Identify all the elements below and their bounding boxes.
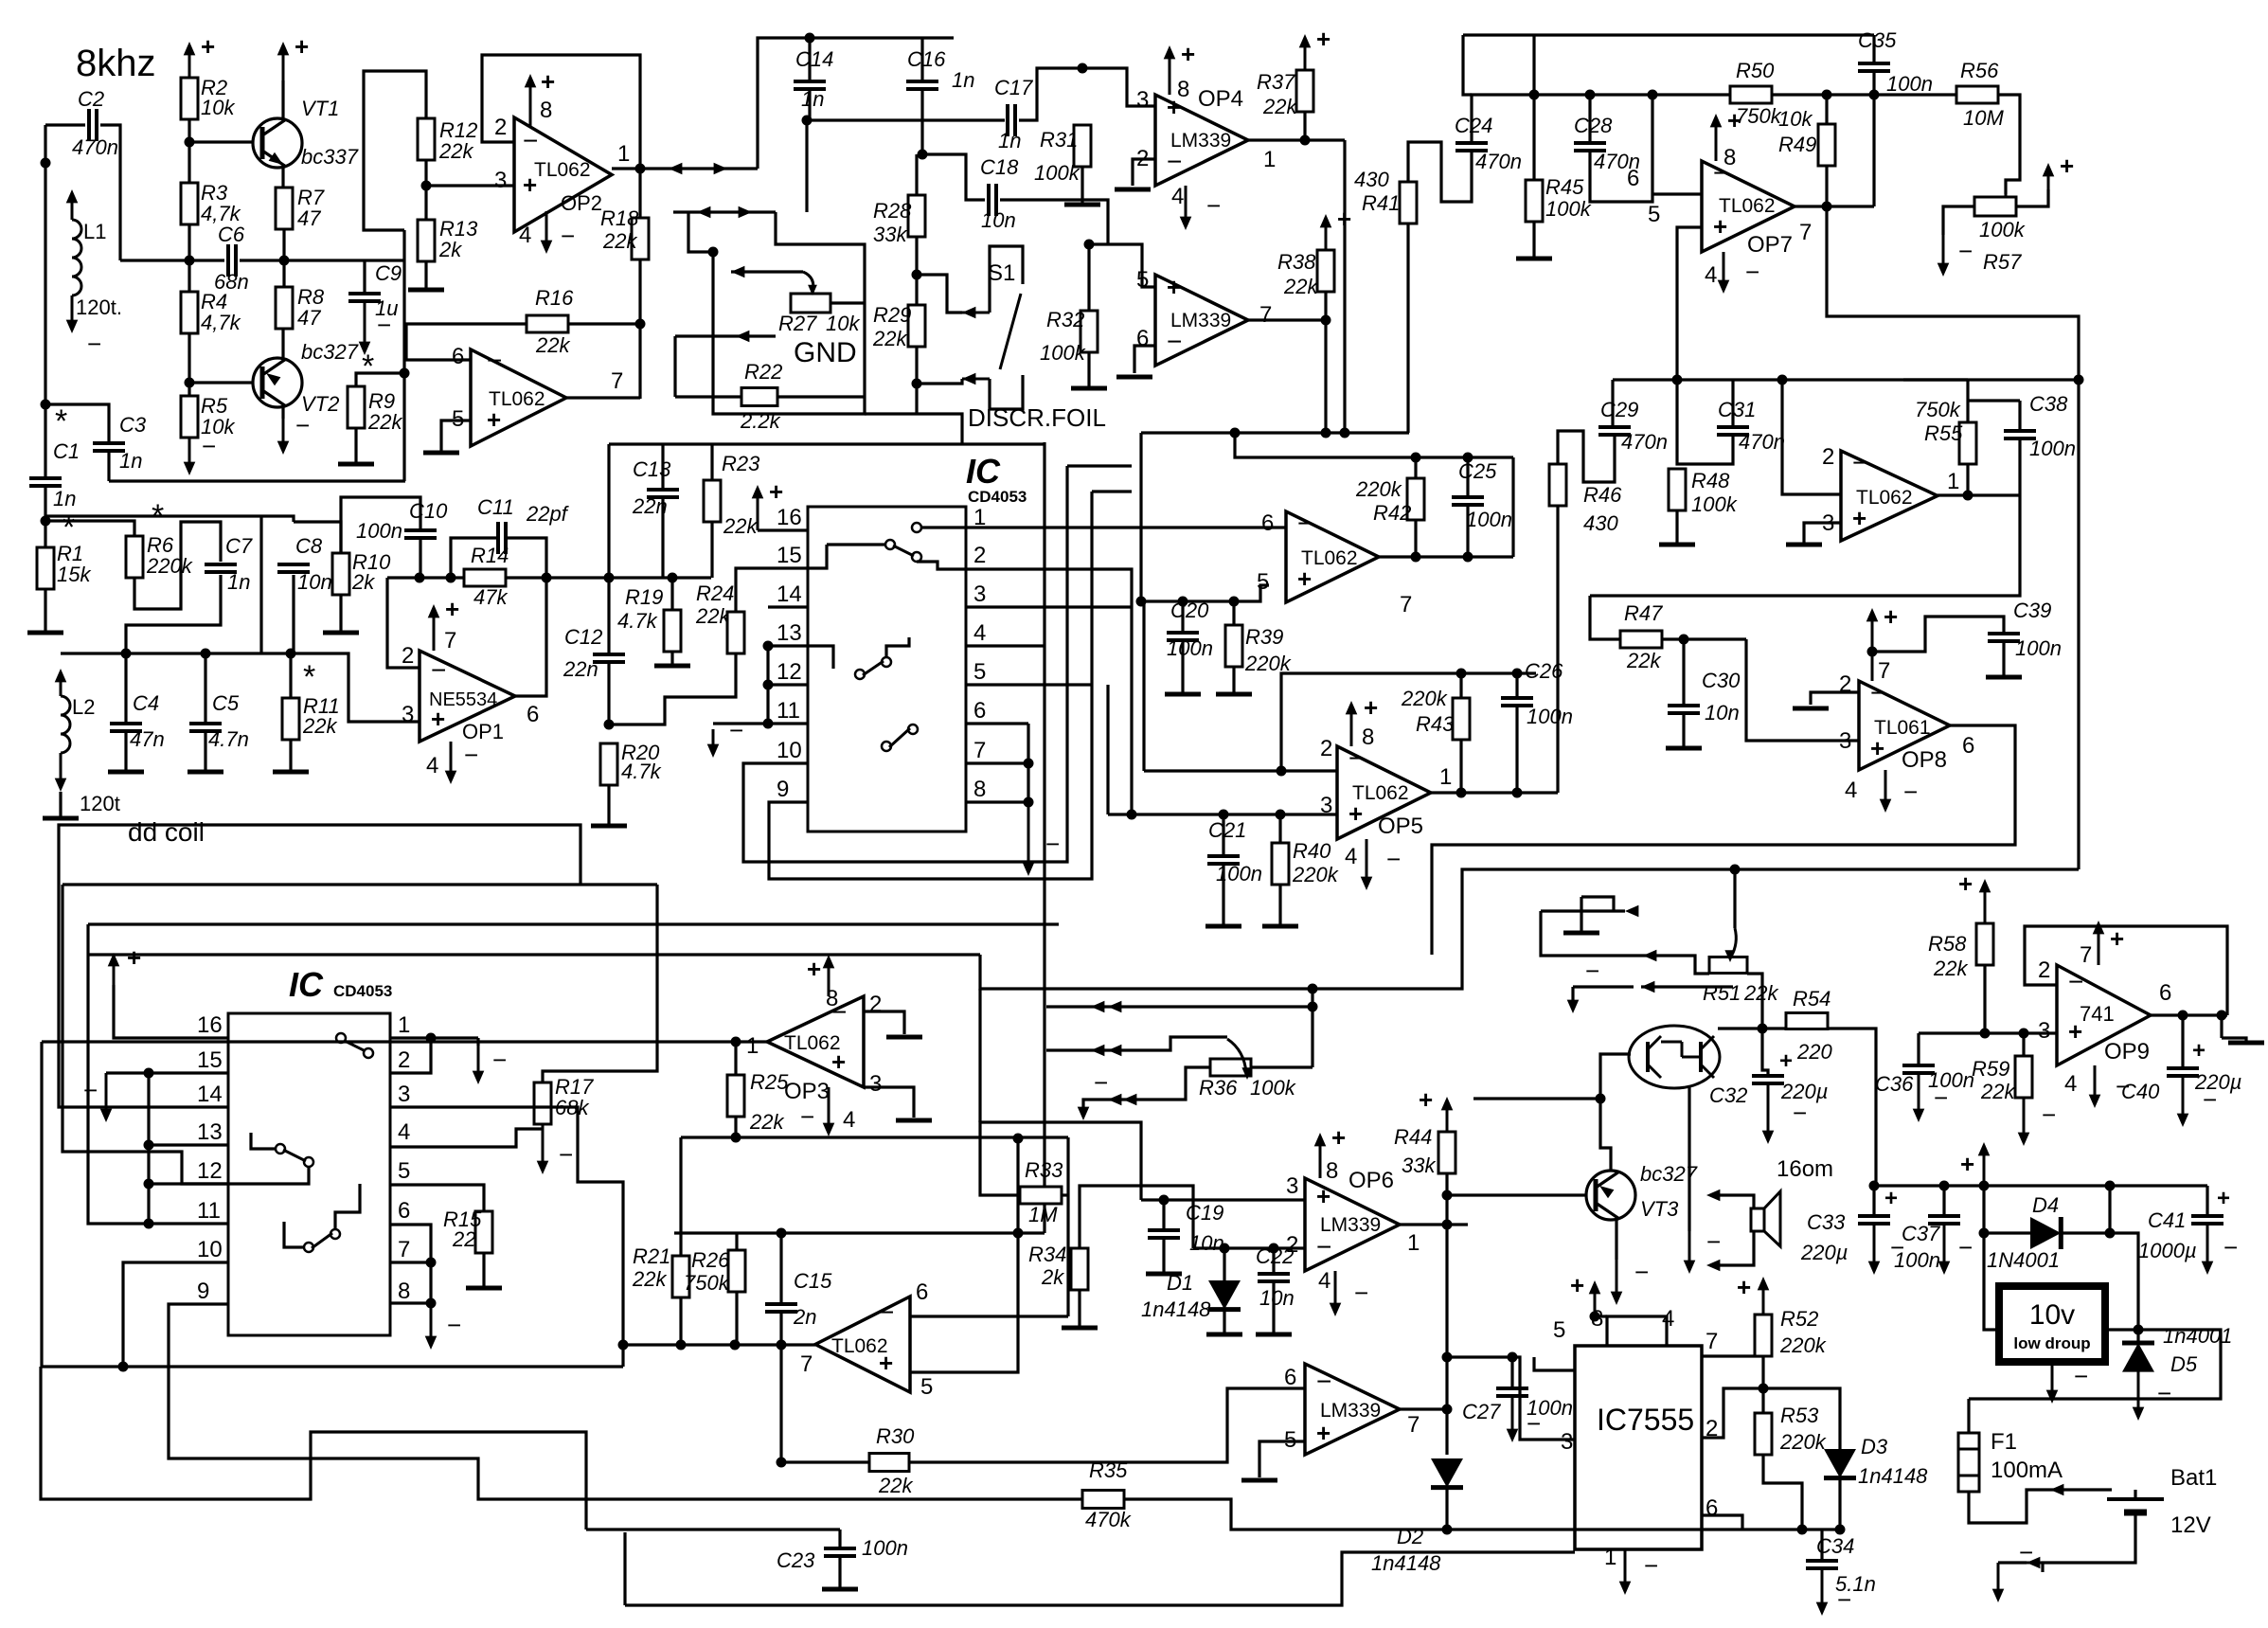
wire C24 top — [1472, 95, 1534, 143]
IC7555 box — [1575, 1346, 1702, 1549]
svg-text:33k: 33k — [1402, 1154, 1436, 1177]
wire — [259, 516, 262, 653]
resistor R2 — [181, 78, 198, 119]
resistor R46 — [1549, 464, 1566, 506]
svg-text:7: 7 — [1705, 1329, 1718, 1354]
resistor R13 — [418, 220, 435, 261]
wiper R51 — [1733, 869, 1736, 928]
wire R6 branch — [45, 521, 134, 536]
svg-text:9: 9 — [777, 777, 789, 802]
svg-text:22k: 22k — [367, 410, 402, 434]
svg-text:4.7k: 4.7k — [617, 609, 658, 633]
wire pin4 — [390, 1129, 543, 1147]
wire OP7 out down — [1827, 206, 2079, 869]
wire collector VT1 + — [281, 81, 284, 122]
wire emitter VT1 — [281, 164, 284, 188]
svg-text:*: * — [63, 510, 75, 546]
wire R34 — [1078, 1290, 1080, 1328]
capacitor C17 — [1006, 104, 1009, 136]
svg-text:+: + — [1316, 25, 1330, 53]
svg-text:22k: 22k — [632, 1267, 667, 1291]
power + pin16 — [757, 491, 759, 530]
svg-text:10: 10 — [777, 738, 802, 763]
svg-text:IC: IC — [966, 452, 1001, 491]
wire bat top — [2134, 1490, 2136, 1499]
svg-text:−: − — [1852, 448, 1867, 477]
svg-text:GND: GND — [794, 337, 857, 368]
resistor R12 — [418, 118, 435, 160]
wire reg gnd — [2051, 1362, 2054, 1398]
wire R10 gnd — [339, 595, 342, 633]
svg-text:R55: R55 — [1924, 421, 1963, 445]
svg-text:7: 7 — [2080, 942, 2092, 968]
wire right buses — [1043, 442, 1045, 1233]
resistor R58 — [1976, 923, 1993, 965]
wire C15 — [779, 1233, 782, 1304]
svg-text:22k: 22k — [302, 714, 337, 738]
wire C5 — [204, 653, 206, 724]
wire pin2 — [1702, 1388, 1763, 1438]
wire R16 — [568, 322, 640, 325]
capacitor C6 — [226, 244, 230, 277]
capacitor C9 — [348, 292, 381, 295]
svg-text:4.7k: 4.7k — [621, 760, 662, 783]
resistor R47 — [1620, 631, 1662, 648]
svg-text:1n4148: 1n4148 — [1141, 1297, 1211, 1321]
svg-text:3: 3 — [1286, 1173, 1298, 1199]
wire C23 — [838, 1530, 841, 1548]
wire y457 — [1141, 431, 1409, 434]
wire C3 — [45, 404, 109, 443]
resistor R39 — [1225, 625, 1242, 667]
svg-text:−: − — [447, 1311, 461, 1339]
bus OP3 — [42, 1042, 623, 1367]
svg-text:22k: 22k — [695, 604, 730, 628]
svg-text:11: 11 — [777, 698, 800, 724]
wire pins 6-7-8 — [1027, 724, 1029, 802]
svg-text:12V: 12V — [2170, 1512, 2211, 1538]
svg-text:4: 4 — [1318, 1268, 1330, 1294]
svg-text:−: − — [1903, 778, 1918, 806]
wire y1063 — [1046, 1005, 1313, 1008]
svg-text:VT3: VT3 — [1640, 1197, 1679, 1221]
power R52 + — [1762, 1282, 1765, 1315]
svg-text:1: 1 — [1439, 764, 1452, 790]
capacitor C34 — [1806, 1559, 1838, 1563]
wire pin5 net — [1141, 433, 1269, 601]
svg-text:−: − — [1206, 191, 1221, 220]
wire R4-R5 — [188, 333, 190, 396]
wire discr bottom — [865, 414, 962, 443]
wire C15 down R30 — [779, 1345, 782, 1462]
svg-text:C20: C20 — [1170, 599, 1209, 622]
power R44 + — [1446, 1102, 1449, 1132]
svg-text:750k: 750k — [1915, 398, 1961, 421]
svg-text:470n: 470n — [1739, 430, 1785, 454]
wire OP2 out — [612, 167, 758, 170]
wire R55 top — [1903, 378, 1968, 381]
wire R45 gnd — [1532, 222, 1535, 259]
svg-text:22k: 22k — [535, 333, 570, 357]
svg-text:dd coil: dd coil — [128, 817, 205, 847]
resistor R16 — [527, 315, 568, 332]
svg-text:+: + — [2217, 1186, 2230, 1211]
wire y1615 — [1447, 1528, 1840, 1530]
svg-text:+: + — [1181, 40, 1195, 68]
svg-text:11: 11 — [197, 1198, 221, 1224]
resistor R17 — [534, 1082, 551, 1124]
svg-text:22k: 22k — [602, 229, 637, 253]
svg-text:R19: R19 — [625, 585, 663, 609]
wire OP4 out — [1248, 138, 1345, 141]
pot R27 — [791, 294, 830, 313]
svg-text:2k: 2k — [351, 570, 375, 594]
svg-text:47: 47 — [297, 306, 321, 330]
wire R12-R13 — [424, 160, 427, 220]
resistor R34 — [1071, 1248, 1088, 1290]
wire C10 — [341, 497, 420, 553]
svg-text:C19: C19 — [1186, 1201, 1223, 1225]
wire R48 gnd — [1675, 510, 1678, 545]
svg-text:+: + — [445, 595, 459, 623]
wire F1 bottom — [1969, 1490, 2112, 1523]
power arrow + — [188, 47, 191, 78]
battery Bat1 — [2107, 1497, 2164, 1501]
wire pin15 left — [736, 568, 808, 612]
svg-text:−: − — [492, 1046, 507, 1074]
power OP3 - — [828, 1087, 830, 1131]
svg-text:120t: 120t — [80, 792, 120, 815]
svg-text:+: + — [1337, 205, 1351, 233]
wire C8 top R10 — [294, 522, 341, 553]
op-amp OP8 — [1859, 681, 1950, 770]
svg-text:LM339: LM339 — [1320, 1214, 1381, 1236]
svg-text:16: 16 — [777, 505, 802, 530]
wire R39 — [1232, 601, 1235, 625]
wire R31 gnd — [1080, 167, 1083, 205]
capacitor C38 — [2004, 429, 2036, 433]
wire C20 — [1181, 601, 1184, 633]
wire R22 — [675, 395, 741, 398]
wire R42 — [1414, 457, 1417, 478]
wire emitter VT2 — [281, 329, 284, 362]
svg-text:+: + — [2192, 1038, 2205, 1064]
capacitor C13 — [647, 488, 679, 492]
wire pin1 — [921, 526, 1286, 528]
svg-text:−: − — [487, 346, 502, 375]
svg-text:33k: 33k — [873, 223, 907, 246]
wire C36 — [1917, 1033, 1920, 1065]
svg-text:−: − — [800, 1102, 814, 1131]
op-amp OP7 — [1702, 161, 1795, 252]
gnd hook row1 — [1563, 931, 1599, 936]
svg-text:L1: L1 — [83, 220, 106, 243]
wire C12 — [607, 578, 610, 654]
svg-text:CD4053: CD4053 — [333, 982, 392, 1000]
wire — [45, 123, 85, 126]
wire R51 right — [1747, 974, 1762, 1025]
svg-text:+: + — [1316, 1182, 1330, 1210]
wire — [188, 119, 190, 183]
wire R26 top — [735, 1233, 738, 1250]
wire OP2 +in — [426, 184, 514, 187]
wire C29 — [1611, 380, 1614, 427]
wire R36 wiper net — [1046, 1037, 1227, 1050]
power OP7 + — [1715, 119, 1718, 161]
power OP7 - — [1723, 252, 1725, 288]
wire OP3 out — [736, 1040, 767, 1043]
wire R27 right — [830, 301, 865, 304]
wire reg in — [1984, 1233, 1999, 1330]
svg-text:220µ: 220µ — [2194, 1070, 2241, 1094]
wire OP8 out loop — [1432, 725, 2015, 955]
wire VT3 base — [1447, 1193, 1588, 1196]
svg-text:5: 5 — [1648, 202, 1660, 227]
wire base VT1 — [189, 140, 255, 143]
svg-text:R28: R28 — [873, 199, 912, 223]
wire R49 — [1825, 95, 1828, 124]
capacitor C18 — [987, 184, 991, 216]
svg-text:1n: 1n — [952, 68, 974, 92]
resistor R59 — [2015, 1056, 2032, 1098]
transistor VT3 — [1586, 1171, 1635, 1220]
svg-text:3: 3 — [1839, 728, 1851, 754]
svg-text:CD4053: CD4053 — [968, 488, 1027, 506]
svg-text:13: 13 — [777, 620, 802, 646]
svg-text:+: + — [1364, 693, 1378, 722]
wire row3 — [1641, 985, 1733, 988]
svg-text:100k: 100k — [1545, 197, 1592, 221]
wire C9 — [363, 260, 366, 294]
svg-text:C9: C9 — [375, 261, 402, 285]
wire OP7 in5 rail — [1677, 227, 1702, 380]
svg-text:−: − — [464, 741, 478, 769]
svg-text:6: 6 — [1261, 510, 1274, 536]
wire pin6 — [390, 1225, 431, 1262]
transistor VT2 — [253, 358, 302, 407]
power R58 + — [1984, 885, 1987, 923]
svg-text:DISCR.FOIL: DISCR.FOIL — [968, 403, 1106, 432]
wire pin6 — [966, 722, 1028, 725]
svg-text:1: 1 — [398, 1012, 410, 1038]
wire pin14 bus — [59, 825, 580, 1107]
svg-text:120t.: 120t. — [76, 295, 122, 319]
svg-text:22k: 22k — [723, 514, 758, 538]
capacitor C15 — [765, 1302, 797, 1306]
power arrow OP1 + — [433, 610, 436, 651]
svg-text:1n4148: 1n4148 — [1858, 1464, 1928, 1488]
svg-text:6: 6 — [1962, 733, 1974, 759]
svg-text:5: 5 — [973, 659, 986, 685]
svg-text:*: * — [55, 403, 67, 439]
wire OP3 in3 — [864, 1087, 914, 1118]
svg-text:470n: 470n — [72, 135, 118, 159]
wire pin10 — [123, 1262, 228, 1367]
wire net to IC7555 — [1447, 1357, 1575, 1440]
wire C19 — [1141, 1198, 1305, 1201]
svg-text:−: − — [2223, 1233, 2238, 1261]
bus A — [63, 883, 657, 886]
wire pin5 R15 — [390, 1185, 484, 1211]
svg-text:OP7: OP7 — [1747, 232, 1793, 258]
diode D3 — [1824, 1449, 1856, 1478]
wire vert x427 — [402, 230, 405, 481]
wire R13 gnd — [424, 261, 427, 290]
svg-text:1000µ: 1000µ — [2138, 1239, 2197, 1262]
power OP9 - — [2094, 1065, 2097, 1102]
wire OP7 in6 — [1652, 192, 1702, 195]
svg-text:7: 7 — [1259, 302, 1272, 328]
svg-text:4: 4 — [843, 1107, 855, 1133]
svg-text:100n: 100n — [1167, 636, 1213, 660]
wire reg right — [2110, 1233, 2138, 1330]
wire pin7 — [966, 761, 1028, 764]
svg-text:−: − — [1706, 1227, 1721, 1256]
wire D1 — [1223, 1248, 1225, 1280]
wire pin13 — [149, 1143, 228, 1146]
wire F1 top — [1967, 1399, 1970, 1433]
power OP8 + — [1871, 614, 1874, 681]
resistor R14 — [464, 569, 506, 586]
op-amp OP1 — [420, 651, 515, 742]
op-amp OP2b — [471, 349, 566, 446]
svg-text:−: − — [1958, 1233, 1973, 1261]
svg-text:−: − — [1045, 830, 1060, 858]
wire out loop — [1969, 1330, 2221, 1399]
svg-text:C40: C40 — [2121, 1080, 2160, 1103]
wire C39 link — [1872, 617, 2004, 652]
svg-text:3: 3 — [1136, 87, 1149, 113]
IC box upper — [808, 507, 966, 832]
arrows bidir — [669, 163, 682, 175]
power OP5 - — [1366, 839, 1368, 885]
svg-text:C18: C18 — [980, 155, 1019, 179]
wire C26 — [1515, 673, 1518, 698]
wire C41 branch — [2205, 1186, 2208, 1216]
svg-text:22pf: 22pf — [526, 502, 570, 526]
svg-text:TL061: TL061 — [1874, 717, 1931, 739]
wire in3 up — [1106, 685, 1109, 814]
svg-text:1: 1 — [1263, 147, 1276, 172]
svg-text:F1: F1 — [1991, 1429, 2017, 1455]
svg-text:−: − — [87, 330, 101, 358]
wire R45 bus — [1532, 35, 1535, 180]
svg-text:22n: 22n — [563, 657, 598, 681]
wire out up — [758, 38, 954, 169]
power IC7555 + — [1607, 1316, 1667, 1346]
svg-text:22k: 22k — [438, 139, 473, 163]
resistor R38 — [1317, 250, 1334, 292]
capacitor C14 — [794, 80, 826, 83]
svg-text:−: − — [559, 1140, 573, 1169]
wire R59 — [2022, 1033, 2025, 1056]
svg-text:*: * — [303, 659, 315, 695]
wire VT3 col — [1615, 1218, 1617, 1260]
wire R43 — [1459, 673, 1462, 698]
wire C38 top — [1968, 399, 2020, 402]
svg-text:C8: C8 — [295, 534, 323, 558]
svg-text:2: 2 — [1822, 444, 1834, 470]
svg-text:1n: 1n — [227, 570, 250, 594]
svg-text:6: 6 — [916, 1279, 928, 1305]
wire y690 bus — [61, 653, 420, 722]
wire R33 — [1062, 1193, 1068, 1196]
svg-text:C12: C12 — [564, 625, 602, 649]
svg-text:+: + — [1960, 1150, 1974, 1178]
svg-text:R26: R26 — [691, 1248, 730, 1272]
svg-text:D5: D5 — [2170, 1352, 2198, 1376]
wire C25 — [1466, 457, 1469, 497]
wire pin11 gnd — [713, 722, 768, 725]
svg-text:OP3: OP3 — [784, 1079, 830, 1104]
wire LM339b in5 gnd — [1259, 1441, 1305, 1477]
wire OP5 in3 — [1108, 813, 1337, 815]
capacitor C1 — [29, 476, 62, 480]
wire row1 — [1541, 909, 1625, 912]
capacitor C41 elec — [2191, 1214, 2223, 1218]
resistor R45 — [1526, 180, 1543, 222]
resistor R7 — [276, 188, 293, 229]
svg-text:7: 7 — [444, 628, 456, 653]
svg-text:+: + — [769, 477, 783, 506]
wire collector VT2 - — [281, 403, 284, 419]
wire R29 down — [915, 347, 918, 414]
power arrow OP2 - — [545, 211, 548, 248]
svg-text:C37: C37 — [1902, 1222, 1940, 1245]
svg-text:R30: R30 — [876, 1424, 915, 1448]
svg-text:2: 2 — [973, 543, 986, 568]
svg-text:220k: 220k — [146, 554, 193, 578]
wire C34 — [1820, 1530, 1823, 1561]
wire R25 — [734, 1042, 737, 1075]
svg-text:R44: R44 — [1394, 1125, 1432, 1149]
wire C30 — [1682, 639, 1685, 706]
power R38 + — [1325, 220, 1328, 250]
wire R11 — [289, 653, 292, 698]
wire OP5 in2 drop — [1142, 601, 1145, 771]
svg-text:−: − — [2157, 1379, 2171, 1407]
svg-text:2: 2 — [494, 115, 507, 140]
svg-text:5: 5 — [1136, 267, 1149, 293]
wire OP7 out — [1795, 205, 1874, 207]
resistor R48 — [1669, 469, 1686, 510]
wire C38 — [2018, 401, 2021, 431]
svg-text:10: 10 — [197, 1237, 223, 1262]
svg-text:C5: C5 — [212, 691, 240, 715]
inductor L1 — [72, 220, 81, 295]
svg-text:8khz: 8khz — [76, 43, 156, 84]
wire sw internals — [251, 1133, 276, 1149]
wire R46 down — [1556, 506, 1559, 793]
resistor R26 — [728, 1250, 745, 1292]
wire pin5 gnd — [441, 420, 471, 453]
svg-text:R39: R39 — [1245, 625, 1283, 649]
wire R54 — [1762, 1027, 1786, 1029]
resistor R20 — [600, 743, 617, 785]
svg-text:R40: R40 — [1293, 839, 1331, 863]
wire R6 bottom — [134, 522, 221, 609]
wire C27 — [1510, 1357, 1513, 1388]
svg-text:+: + — [127, 943, 141, 972]
wire C1 down — [45, 486, 294, 522]
capacitor C29 — [1598, 425, 1631, 429]
svg-text:C31: C31 — [1718, 398, 1756, 421]
svg-text:C16: C16 — [907, 47, 946, 71]
wire OP1 in2 — [387, 578, 420, 668]
capacitor C21 — [1207, 854, 1240, 858]
svg-text:R51: R51 — [1703, 981, 1741, 1005]
resistor R22 — [741, 388, 777, 406]
